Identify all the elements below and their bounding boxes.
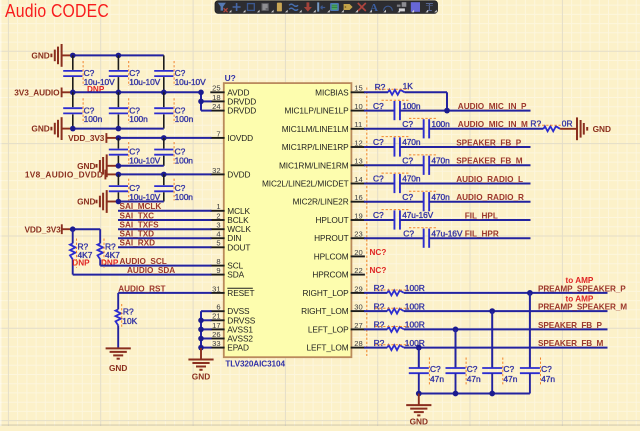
svg-text:PREAMP_SPEAKER_P: PREAMP_SPEAKER_P [538, 284, 626, 293]
capacitor C? 10u-10V (bypass row 1, col 1) [63, 55, 115, 94]
capacitor C? 470n + net label SPEAKER_FB_P [364, 137, 531, 157]
pin 24 DRVDD (left) [210, 102, 256, 116]
resistor R? 100R + net label PREAMP_SPEAKER_M (to AMP) [364, 294, 627, 313]
no-connect NC? on pin 20 HPLCOM [370, 248, 387, 257]
svg-text:AUDIO_MIC_IN_P: AUDIO_MIC_IN_P [458, 102, 527, 111]
wire: IOVDD caps GND rail [118, 165, 163, 167]
svg-text:47n: 47n [467, 374, 481, 384]
resistor R? 4K7 DNP (SCL pull-up) [98, 229, 121, 268]
pin 26 AVSS2 (left) [210, 330, 253, 344]
svg-text:23: 23 [354, 230, 362, 239]
svg-text:20: 20 [354, 248, 362, 257]
svg-text:MIC1RM/LINE1RM: MIC1RM/LINE1RM [279, 160, 349, 170]
wire: top GND rail [73, 54, 164, 56]
power port VDD_3V3 (I2C pull-ups) [24, 224, 73, 234]
capacitor C? 47n (speaker filter 2) [446, 358, 482, 394]
svg-text:C?: C? [503, 364, 514, 374]
capacitor C? 100n (IOVDD bypass) [154, 138, 193, 166]
svg-text:5: 5 [216, 239, 220, 248]
svg-text:SDA: SDA [227, 270, 244, 280]
svg-text:C?: C? [373, 210, 384, 220]
svg-text:4: 4 [216, 230, 220, 239]
svg-text:NC?: NC? [370, 248, 387, 257]
svg-text:100n: 100n [84, 114, 103, 124]
resistor R? 0R (mic return) [530, 119, 572, 132]
svg-text:MIC2R/LINE2R: MIC2R/LINE2R [293, 197, 349, 207]
svg-text:Audio CODEC: Audio CODEC [5, 0, 109, 21]
capacitor C? 47n (speaker filter 3) [482, 358, 518, 394]
svg-text:R?: R? [530, 119, 541, 129]
pin 3 WCLK (left) [210, 221, 251, 235]
svg-text:GND: GND [77, 197, 95, 207]
svg-text:100R: 100R [405, 283, 425, 293]
capacitor C? 100n + net label AUDIO_MIC_IN_M [364, 118, 544, 138]
power ground GND (right of 0R) [560, 117, 611, 140]
wire: speaker filter ground bus [419, 393, 530, 395]
svg-text:7: 7 [216, 129, 220, 138]
pin 32 DVDD (left) [210, 166, 250, 180]
junction dot on IOVDD caps GND rail [116, 163, 122, 169]
pin 17 AVSS1 (left) [210, 321, 253, 335]
wire + net label AUDIO_SCL [100, 257, 211, 266]
svg-text:SAI_TXC: SAI_TXC [120, 211, 155, 220]
power ground GND (top-left) [31, 44, 73, 67]
junction dots on ground bus [198, 318, 204, 351]
svg-text:R?: R? [374, 338, 385, 348]
svg-text:100n: 100n [402, 101, 421, 111]
svg-text:SPEAKER_FB_P: SPEAKER_FB_P [456, 138, 522, 147]
junction dot on DVDD caps GND rail [116, 199, 122, 205]
wire + net label AUDIO_SDA [73, 266, 212, 275]
power port 1V8_AUDIO_DVDD [25, 169, 119, 179]
wire + net label SAI_TXFS [118, 221, 212, 230]
svg-text:GND: GND [31, 50, 49, 60]
resistor R? 1K (MICBIAS) [364, 81, 413, 95]
pin 6 DVSS (left) [210, 303, 250, 317]
capacitor C? 100n (DVDD bypass) [154, 174, 193, 202]
svg-text:GND: GND [192, 371, 210, 381]
wire: PREAMP_SPEAKER_M drop [489, 308, 495, 368]
svg-text:10u-10V: 10u-10V [175, 77, 206, 87]
wire + net label SAI_RXD [118, 239, 212, 248]
svg-text:1: 1 [216, 202, 220, 211]
svg-text:FIL_HPR: FIL_HPR [465, 230, 499, 239]
junction dots on 1V8_AUDIO_DVDD rail [116, 172, 167, 178]
svg-text:SAI_TXFS: SAI_TXFS [120, 221, 160, 230]
capacitor C? 100n (bypass row 2, col 1) [63, 92, 102, 128]
svg-text:HPLCOM: HPLCOM [314, 251, 349, 261]
pin 20 HPLCOM (right) [314, 248, 365, 262]
svg-text:11: 11 [354, 120, 362, 129]
pin 2 BCLK (left) [210, 211, 249, 225]
svg-text:33: 33 [212, 339, 220, 348]
svg-text:to AMP: to AMP [566, 294, 594, 303]
svg-text:470n: 470n [402, 137, 421, 147]
svg-text:28: 28 [354, 339, 362, 348]
svg-text:SAI_MCLK: SAI_MCLK [120, 202, 162, 211]
svg-text:18: 18 [212, 93, 220, 102]
svg-text:2: 2 [216, 211, 220, 220]
svg-text:25: 25 [212, 84, 220, 93]
svg-text:HPLOUT: HPLOUT [316, 215, 349, 225]
svg-text:C?: C? [373, 174, 384, 184]
wire: DVSS/AVSS ground bus [201, 311, 212, 348]
svg-text:DRVDD: DRVDD [227, 106, 256, 116]
svg-text:AUDIO_SDA: AUDIO_SDA [127, 266, 175, 275]
svg-text:LEFT_LOM: LEFT_LOM [307, 343, 349, 353]
wire + net label SAI_TXD [118, 230, 212, 239]
svg-text:470n: 470n [402, 174, 421, 184]
svg-text:AUDIO_SCL: AUDIO_SCL [120, 257, 167, 266]
capacitor C? 10u-10V (IOVDD bypass) [109, 138, 161, 166]
wire: SPEAKER_FB_M drop [416, 345, 422, 368]
power port 3V3_AUDIO [14, 87, 73, 97]
resistor R? 4K7 DNP (SDA pull-up) [70, 229, 93, 274]
pin 18 DRVDD (left) [210, 93, 256, 107]
pin 4 DIN (left) [210, 230, 241, 244]
svg-text:100R: 100R [405, 320, 425, 330]
svg-text:47u-16V: 47u-16V [402, 210, 433, 220]
capacitor C? 100n (bypass row 2, col 2) [109, 92, 148, 128]
svg-text:C?: C? [402, 119, 413, 129]
svg-text:26: 26 [212, 330, 220, 339]
svg-text:47n: 47n [430, 374, 444, 384]
wire: pull-up top rail [73, 228, 101, 230]
svg-text:VDD_3V3: VDD_3V3 [24, 224, 61, 234]
svg-text:29: 29 [354, 284, 362, 293]
svg-text:10u-10V: 10u-10V [129, 155, 160, 165]
capacitor C? 100n + net label AUDIO_MIC_IN_P [364, 100, 531, 120]
svg-text:32: 32 [212, 166, 220, 175]
svg-text:C?: C? [430, 364, 441, 374]
junction dots on top GND rail [70, 53, 121, 59]
svg-text:10u-10V: 10u-10V [129, 77, 160, 87]
junction dots on 3V3_AUDIO rail [70, 90, 204, 105]
svg-text:47n: 47n [503, 374, 517, 384]
svg-text:DNP: DNP [72, 259, 90, 268]
svg-text:1V8_AUDIO_DVDD: 1V8_AUDIO_DVDD [25, 169, 103, 179]
pin 11 MIC1LM/LINE1LM (right) [282, 120, 365, 134]
resistor R? 100R + net label PREAMP_SPEAKER_P (to AMP) [364, 276, 626, 295]
pin 21 DRVSS (left) [210, 312, 256, 326]
svg-text:0R: 0R [562, 119, 573, 129]
svg-text:31: 31 [212, 284, 220, 293]
capacitor C? 470n + net label SPEAKER_FB_M [364, 155, 531, 175]
svg-text:12: 12 [354, 138, 362, 147]
svg-text:MICBIAS: MICBIAS [315, 87, 349, 97]
capacitor C? 47n (speaker filter 1) [409, 358, 445, 394]
svg-text:100n: 100n [175, 192, 194, 202]
svg-text:SPEAKER_FB_M: SPEAKER_FB_M [538, 339, 604, 348]
svg-text:MIC1RP/LINE1RP: MIC1RP/LINE1RP [282, 142, 349, 152]
svg-text:SAI_RXD: SAI_RXD [120, 239, 156, 248]
svg-text:14: 14 [354, 175, 362, 184]
ground GND (below U?) [188, 348, 213, 381]
svg-text:R?: R? [374, 320, 385, 330]
pin 9 SDA (left) [210, 266, 244, 280]
svg-text:3: 3 [216, 221, 220, 230]
capacitor C? 10u-10V (DVDD bypass) [109, 174, 161, 202]
wire: 1V8_AUDIO_DVDD rail to pin 32 DVDD [118, 173, 211, 175]
pin 13 MIC1RM/LINE1RM (right) [279, 157, 365, 171]
svg-text:470n: 470n [431, 156, 450, 166]
svg-text:8: 8 [216, 257, 220, 266]
wire: PREAMP_SPEAKER_P drop [527, 290, 533, 368]
pin 1 MCLK (left) [210, 202, 250, 216]
pin 16 MIC2R/LINE2R (right) [293, 193, 365, 207]
svg-text:RESET: RESET [227, 288, 254, 298]
svg-text:EPAD: EPAD [227, 343, 249, 353]
svg-text:C?: C? [402, 156, 413, 166]
svg-text:16: 16 [354, 193, 362, 202]
svg-text:21: 21 [212, 312, 220, 321]
svg-text:27: 27 [354, 321, 362, 330]
pin 28 LEFT_LOM (right) [307, 339, 365, 353]
svg-text:30: 30 [354, 303, 362, 312]
wire: 3V3_AUDIO rail to AVDD/DRVDD pins [73, 92, 212, 110]
svg-text:LEFT_LOP: LEFT_LOP [308, 324, 349, 334]
svg-text:100n: 100n [175, 155, 194, 165]
capacitor C? 100n (bypass row 2, col 3) [154, 92, 193, 128]
pin 5 DOUT (left) [210, 239, 250, 253]
wire: 100n caps GND rail [73, 128, 164, 130]
junction dot AUDIO_MIC_IN_P node [444, 108, 450, 114]
svg-text:SAI_TXD: SAI_TXD [120, 230, 155, 239]
wire + net label AUDIO_RST [118, 284, 211, 293]
floating toolbar [215, 1, 438, 14]
svg-text:C?: C? [541, 364, 552, 374]
svg-text:10K: 10K [122, 316, 137, 326]
svg-text:6: 6 [216, 303, 220, 312]
capacitor C? 470n + net label AUDIO_RADIO_L [364, 173, 531, 193]
resistor R? 100R + net label SPEAKER_FB_P [364, 320, 608, 332]
svg-text:HPRCOM: HPRCOM [312, 270, 348, 280]
svg-text:17: 17 [212, 321, 220, 330]
wire + net label SAI_TXC [118, 211, 212, 220]
power ground GND (left, 2nd) [31, 117, 73, 140]
svg-text:AUDIO_RADIO_L: AUDIO_RADIO_L [456, 175, 523, 184]
svg-text:U?: U? [225, 73, 236, 83]
svg-text:PREAMP_SPEAKER_M: PREAMP_SPEAKER_M [538, 303, 627, 312]
svg-text:AUDIO_RADIO_R: AUDIO_RADIO_R [456, 193, 524, 202]
pin 7 IOVDD (left) [210, 129, 253, 143]
power ground GND (left, 3rd) [77, 154, 119, 177]
pin 19 HPLOUT (right) [316, 211, 365, 225]
svg-text:100R: 100R [405, 301, 425, 311]
svg-text:100n: 100n [431, 119, 450, 129]
svg-text:IOVDD: IOVDD [227, 133, 253, 143]
wire + net label SAI_MCLK [118, 202, 212, 211]
pin 14 MIC2L/LINE2L/MICDET (right) [262, 175, 365, 189]
capacitor C? 47n (speaker filter 4) [520, 358, 556, 394]
svg-text:GND: GND [109, 363, 127, 373]
svg-text:VDD_3V3: VDD_3V3 [68, 133, 105, 143]
svg-text:DVDD: DVDD [227, 169, 250, 179]
pin 33 EPAD (left) [210, 339, 249, 353]
ground GND (speaker filters) [406, 394, 431, 427]
svg-text:R?: R? [375, 82, 386, 92]
wire: DVDD caps GND rail [118, 201, 163, 203]
svg-text:R?: R? [374, 301, 385, 311]
svg-text:AUDIO_MIC_IN_M: AUDIO_MIC_IN_M [458, 120, 528, 129]
svg-text:47n: 47n [541, 374, 555, 384]
svg-text:100R: 100R [405, 338, 425, 348]
svg-text:100n: 100n [175, 114, 194, 124]
junction dots on 100n GND rail [70, 126, 121, 132]
svg-text:470n: 470n [431, 192, 450, 202]
svg-text:FIL_HPL: FIL_HPL [465, 211, 498, 220]
pin 22 HPRCOM (right) [312, 266, 365, 280]
junction dot at pull-up rail [70, 226, 76, 232]
svg-text:9: 9 [216, 266, 220, 275]
svg-text:TLV320AIC3104: TLV320AIC3104 [225, 360, 285, 369]
resistor R? 100R + net label SPEAKER_FB_M [364, 338, 608, 350]
svg-text:C?: C? [467, 364, 478, 374]
svg-text:47u-16V: 47u-16V [431, 228, 462, 238]
power ground GND (left, 4th) [77, 190, 119, 213]
svg-text:3V3_AUDIO: 3V3_AUDIO [14, 87, 60, 97]
svg-text:19: 19 [354, 211, 362, 220]
junction dots on VDD_3V3 rail [116, 135, 167, 141]
svg-text:to AMP: to AMP [566, 276, 594, 285]
svg-text:10: 10 [354, 102, 362, 111]
pin 30 RIGHT_LOM (right) [301, 303, 365, 317]
pin 27 LEFT_LOP (right) [308, 321, 365, 335]
capacitor C? 10u-10V (bypass row 1, col 2) [109, 55, 161, 92]
svg-text:DOUT: DOUT [227, 242, 250, 252]
capacitor C? 470n + net label AUDIO_RADIO_R [364, 191, 531, 211]
svg-text:C?: C? [403, 228, 414, 238]
svg-text:GND: GND [31, 124, 49, 134]
svg-text:R?: R? [374, 283, 385, 293]
pin 15 MICBIAS (right) [315, 84, 365, 98]
variant marker dashed line right of U? [366, 88, 368, 357]
svg-text:NC?: NC? [370, 266, 387, 275]
svg-text:C?: C? [373, 137, 384, 147]
svg-text:MIC1LM/LINE1LM: MIC1LM/LINE1LM [282, 124, 349, 134]
svg-text:C?: C? [402, 192, 413, 202]
svg-text:100n: 100n [129, 114, 148, 124]
junction dots on filter ground bus [416, 391, 495, 397]
wire: SPEAKER_FB_P drop [453, 327, 459, 369]
wire: VDD_3V3 rail to pin 7 IOVDD [118, 137, 211, 139]
pin 12 MIC1RP/LINE1RP (right) [282, 138, 365, 152]
svg-text:SPEAKER_FB_P: SPEAKER_FB_P [538, 321, 603, 330]
sheet title "Audio CODEC" [5, 0, 109, 21]
svg-text:MIC1LP/LINE1LP: MIC1LP/LINE1LP [285, 106, 350, 116]
capacitor C? 47u-16V + net label FIL_HPL [364, 210, 531, 230]
svg-text:RIGHT_LOP: RIGHT_LOP [302, 288, 349, 298]
pin 31 RESET (left) [210, 284, 254, 298]
IC U? TLV320AIC3104 body [224, 73, 352, 369]
pin 25 AVDD (left) [210, 84, 249, 98]
capacitor C? 10u-10V (bypass row 1, col 3) [154, 55, 206, 92]
svg-text:AUDIO_RST: AUDIO_RST [118, 284, 165, 293]
capacitor C? 47u-16V + net label FIL_HPR [364, 228, 531, 248]
svg-text:SPEAKER_FB_M: SPEAKER_FB_M [456, 157, 523, 166]
resistor R? 10K (reset pull-down) [116, 293, 138, 349]
svg-text:15: 15 [354, 84, 362, 93]
ground GND (below 10K) [106, 348, 131, 373]
svg-text:RIGHT_LOM: RIGHT_LOM [301, 306, 349, 316]
pin 8 SCL (left) [210, 257, 243, 271]
svg-text:MIC2L/LINE2L/MICDET: MIC2L/LINE2L/MICDET [262, 179, 349, 189]
no-connect NC? on pin 22 HPRCOM [370, 266, 387, 275]
svg-text:HPROUT: HPROUT [314, 233, 348, 243]
power port VDD_3V3 (IOVDD rail) [68, 133, 119, 143]
svg-text:C?: C? [373, 101, 384, 111]
svg-text:13: 13 [354, 157, 362, 166]
svg-text:22: 22 [354, 266, 362, 275]
pin 10 MIC1LP/LINE1LP (right) [285, 102, 365, 116]
pin 29 RIGHT_LOP (right) [302, 284, 364, 298]
svg-text:24: 24 [212, 102, 220, 111]
pin 23 HPROUT (right) [314, 230, 365, 244]
wire: MICBIAS to AUDIO_MIC_IN_P node [405, 92, 447, 110]
svg-text:GND: GND [593, 124, 611, 134]
